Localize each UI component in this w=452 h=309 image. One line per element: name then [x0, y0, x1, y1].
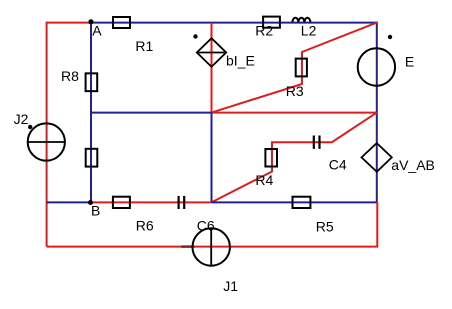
resistor R2	[263, 17, 280, 28]
current source J1	[193, 228, 230, 265]
wire red left vertical	[47, 23, 91, 247]
svg-text:R4: R4	[255, 172, 273, 188]
svg-text:E: E	[405, 53, 414, 69]
svg-text:C4: C4	[329, 157, 347, 173]
node B	[88, 200, 93, 205]
source E	[358, 48, 395, 85]
svg-text:J2: J2	[14, 111, 29, 127]
svg-text:R3: R3	[286, 83, 304, 99]
svg-text:bI_E: bI_E	[226, 53, 255, 69]
resistor R4	[265, 149, 277, 167]
current source J2	[28, 123, 65, 160]
wire red diagonal top-right corner to R3	[212, 23, 377, 113]
dependent source bI_E	[197, 38, 226, 67]
wire blue middle horizontal left	[91, 112, 212, 114]
wire blue bottom left segment	[47, 201, 91, 203]
dot bI_E	[193, 34, 197, 38]
dot J2	[28, 125, 32, 129]
svg-text:C6: C6	[197, 217, 215, 233]
resistor R1	[113, 17, 130, 28]
svg-text:R5: R5	[316, 219, 334, 235]
resistor R5	[293, 197, 311, 208]
resistor R8	[86, 73, 98, 91]
inductor L2	[292, 18, 310, 23]
wire red middle horizontal right	[212, 112, 377, 114]
node A	[88, 19, 93, 24]
svg-text:aV_AB: aV_AB	[391, 157, 435, 173]
svg-text:L2: L2	[301, 23, 317, 39]
resistor unlabeled left	[86, 149, 98, 167]
wire blue left vertical A to B	[90, 22, 92, 203]
resistor R6	[113, 197, 130, 208]
svg-text:J1: J1	[223, 278, 238, 294]
wire red through R4 down to bottom junction	[212, 149, 273, 203]
wire blue right vertical	[376, 22, 378, 203]
wire red bottom horizontal through J1	[47, 202, 378, 246]
wire red vertical through bI_E	[211, 23, 213, 113]
svg-text:B: B	[91, 203, 100, 219]
capacitor C4	[313, 136, 315, 149]
arrow J1 direction mark	[181, 245, 194, 247]
wire red bottom B to center junction	[91, 201, 212, 203]
wire blue center vertical junction to bottom	[211, 113, 213, 203]
svg-text:R2: R2	[255, 23, 273, 39]
wire red diagonal C4 branch	[272, 113, 377, 149]
capacitor C6	[178, 196, 180, 209]
resistor R3	[296, 59, 307, 77]
dot E	[388, 35, 392, 39]
svg-text:A: A	[92, 22, 102, 38]
svg-text:R8: R8	[61, 68, 79, 84]
wire blue top horizontal A to top-right corner	[90, 22, 377, 24]
svg-text:R6: R6	[136, 217, 154, 233]
wire blue bottom center to right	[212, 201, 377, 203]
svg-text:R1: R1	[135, 38, 153, 54]
dependent source aV_AB	[362, 143, 392, 172]
